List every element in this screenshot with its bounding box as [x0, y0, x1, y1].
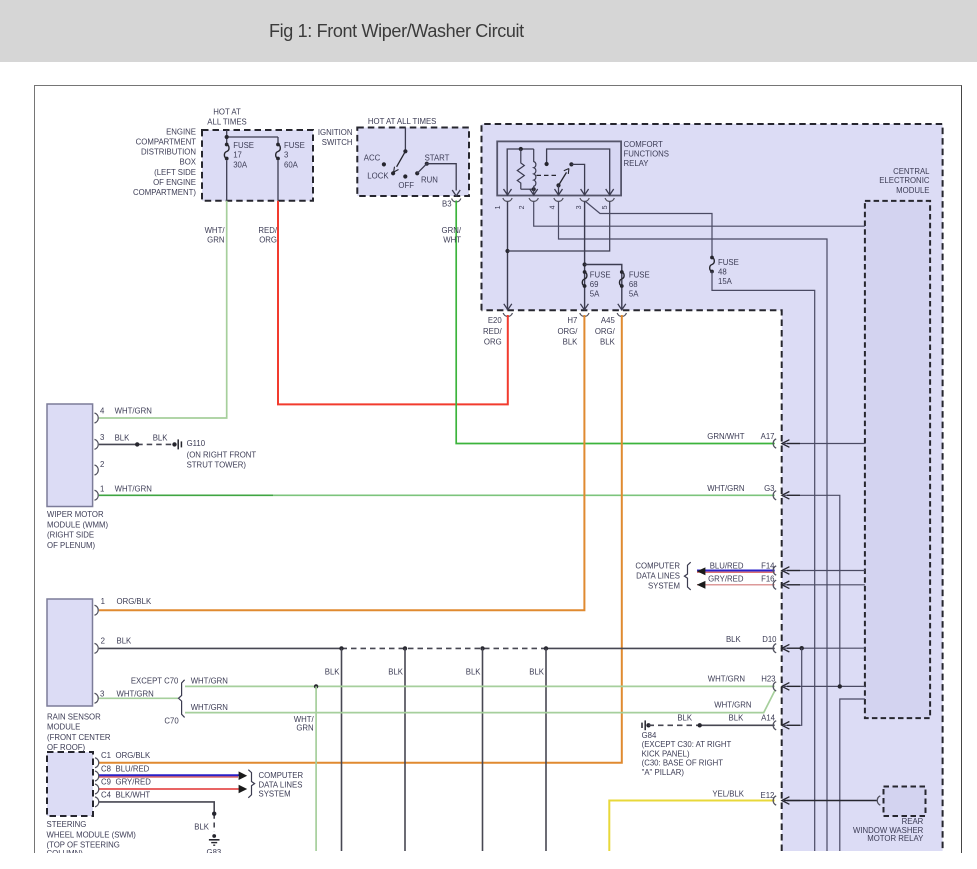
label GRN/WHT below B3	[442, 226, 462, 245]
svg-text:1: 1	[100, 484, 104, 493]
label E20 RED/ORG	[483, 316, 502, 347]
svg-text:A45: A45	[601, 316, 616, 325]
label H7 ORG/BLK	[557, 316, 578, 347]
wire WHT/GRN C70 branch	[185, 690, 775, 713]
central electronic module inner dashed box	[865, 201, 930, 718]
wire WHT/GRN wiper pin1 segment	[99, 494, 273, 496]
connector G3	[773, 491, 800, 500]
label rear window washer motor relay	[853, 817, 924, 843]
wire relay contact to pin3	[571, 164, 584, 195]
svg-text:4: 4	[100, 407, 105, 416]
svg-text:DATA LINES: DATA LINES	[636, 572, 680, 581]
svg-text:WHT/GRN: WHT/GRN	[115, 407, 152, 416]
connector A14	[773, 721, 800, 730]
svg-text:WHT/: WHT/	[205, 226, 226, 235]
wire BLK G84 to A14	[649, 724, 775, 726]
svg-text:E12: E12	[761, 791, 775, 800]
svg-text:GRN: GRN	[296, 723, 313, 732]
node OFF	[403, 174, 407, 178]
svg-text:ELECTRONIC: ELECTRONIC	[879, 176, 930, 185]
svg-text:BOX: BOX	[180, 158, 197, 167]
connector B3 cup	[452, 199, 461, 202]
svg-text:D10: D10	[762, 635, 777, 644]
wire G3 to H23 column	[784, 495, 840, 686]
svg-text:ORG: ORG	[484, 338, 502, 347]
svg-text:BLK: BLK	[388, 668, 404, 677]
svg-text:OF ENGINE: OF ENGINE	[153, 178, 196, 187]
wire relay pin3 branch to fuse48	[586, 202, 713, 257]
connector A45 exit	[617, 304, 626, 317]
connector rain pin3	[95, 693, 99, 703]
wire relay pin2 to inner module	[534, 202, 865, 227]
svg-text:ACC: ACC	[364, 154, 381, 163]
svg-text:BLK: BLK	[194, 823, 210, 832]
label A45 ORG/BLK	[595, 316, 616, 347]
label GRY/RED F16	[708, 574, 774, 583]
node wiper pin3 splice	[135, 442, 139, 446]
svg-text:OF PLENUM): OF PLENUM)	[47, 541, 95, 550]
svg-text:WHT/GRN: WHT/GRN	[707, 484, 744, 493]
node pin1 pin5 tie	[505, 249, 509, 253]
wire GRN/WHT B3 to A17	[456, 201, 775, 444]
node G84 splice	[646, 723, 650, 727]
svg-text:(FRONT CENTER: (FRONT CENTER	[47, 733, 111, 742]
svg-text:BLK: BLK	[466, 668, 482, 677]
steering wheel module box	[47, 752, 93, 816]
svg-text:G3: G3	[764, 484, 774, 493]
label BLK D10	[726, 635, 777, 644]
wire WHT/GRN fuse17 to wiper pin4	[99, 201, 227, 418]
svg-text:EXCEPT C70: EXCEPT C70	[131, 677, 179, 686]
brace C70 split	[179, 680, 185, 718]
wire BLU/RED computer data to F14	[697, 571, 775, 573]
ground G84	[642, 720, 645, 730]
svg-text:B3: B3	[442, 200, 452, 209]
node G110 splice	[172, 442, 176, 446]
svg-text:REAR: REAR	[902, 817, 924, 826]
wire BLK rain pin2 to D10	[99, 647, 775, 649]
svg-text:GRY/RED: GRY/RED	[116, 778, 152, 787]
svg-text:FUSE: FUSE	[590, 271, 611, 280]
label G84 block	[642, 731, 732, 777]
wire E12 to washer relay	[784, 800, 877, 802]
node C70 branch splice	[314, 684, 318, 688]
svg-text:BLK: BLK	[325, 668, 341, 677]
svg-text:1: 1	[495, 205, 502, 209]
label WHT/GRN below fuse17	[205, 226, 226, 245]
node BLK drop 2	[403, 646, 407, 650]
connector wiper pin3	[95, 439, 99, 449]
wire RED/ORG fuse3 to E20	[278, 201, 508, 405]
fuse 68 5A	[619, 270, 624, 288]
label BLK A14	[729, 713, 776, 722]
node LOCK	[391, 171, 395, 175]
ground G110	[178, 439, 181, 449]
wire WHT/GRN splice to G3	[273, 494, 775, 496]
node C4 ground splice	[212, 812, 216, 816]
node fuse top junction	[225, 135, 229, 139]
svg-text:BLU/RED: BLU/RED	[116, 764, 150, 773]
label engine compartment distribution box	[133, 127, 197, 197]
label GRN/WHT A17	[707, 432, 774, 441]
svg-text:5A: 5A	[629, 290, 639, 299]
wire relay pin3 down to H7	[584, 202, 586, 311]
wire H23 to inner module	[784, 685, 865, 687]
svg-text:2: 2	[101, 637, 105, 646]
wire ignition feed	[404, 128, 406, 152]
svg-text:ENGINE: ENGINE	[166, 127, 196, 136]
wire relay pin1 down to E20	[507, 202, 509, 311]
wire BLK drop 4	[545, 648, 547, 851]
wire A14 riser to D10	[784, 648, 802, 725]
svg-text:ORG/: ORG/	[595, 327, 616, 336]
wire relay pin1 riser	[507, 149, 534, 196]
connector E12	[773, 796, 800, 805]
connector A17	[773, 439, 800, 448]
wire YEL/BLK to E12	[609, 801, 774, 852]
wire resistor bottom link	[521, 188, 534, 190]
arrow F14 data line	[697, 567, 706, 575]
wire D10 to inner module	[784, 647, 865, 649]
wire tie to fuse68	[585, 265, 622, 311]
svg-text:ORG/: ORG/	[557, 327, 578, 336]
wiper motor module box	[47, 404, 93, 507]
svg-text:68: 68	[629, 280, 638, 289]
label WHT/GRN G3	[707, 484, 774, 493]
svg-text:A14: A14	[761, 713, 776, 722]
arrow C8 data line	[239, 771, 248, 780]
wire relay pin4 to inner column	[559, 202, 828, 852]
svg-text:60A: 60A	[284, 160, 299, 169]
wire relay actuator dashed link	[537, 174, 557, 176]
svg-text:SYSTEM: SYSTEM	[648, 582, 680, 591]
wire WHT/GRN rain pin3 to brace	[99, 697, 178, 699]
label rain sensor module	[47, 713, 111, 753]
label YEL/BLK E12	[712, 790, 774, 801]
label steering wheel module	[47, 820, 137, 858]
svg-text:E20: E20	[488, 316, 503, 325]
node fuse69 fuse68 tie	[583, 262, 587, 266]
svg-text:ORG/BLK: ORG/BLK	[117, 597, 152, 606]
svg-text:START: START	[425, 154, 450, 163]
label WHT/GRN H23	[708, 675, 776, 684]
wire BLK wiper pin3 to G110	[99, 443, 175, 445]
svg-text:OFF: OFF	[398, 181, 414, 190]
comfort functions relay box U1	[497, 141, 621, 195]
connector F14	[773, 566, 800, 575]
node relay NO contact	[569, 162, 573, 166]
svg-text:3: 3	[100, 433, 104, 442]
svg-text:A17: A17	[761, 432, 775, 441]
svg-text:(EXCEPT C30: AT RIGHT: (EXCEPT C30: AT RIGHT	[642, 740, 732, 749]
svg-text:C9: C9	[101, 778, 111, 787]
node ACC	[382, 162, 386, 166]
node relay coil top	[519, 147, 523, 151]
svg-text:MOTOR RELAY: MOTOR RELAY	[867, 834, 924, 843]
svg-text:STEERING: STEERING	[47, 820, 87, 829]
svg-text:F14: F14	[761, 561, 775, 570]
svg-text:BLK: BLK	[726, 635, 742, 644]
connector rain pin2	[95, 643, 99, 653]
connector B3 exit arrow	[452, 190, 460, 196]
connector relay pin5	[605, 189, 614, 201]
wire relay pin5 to pin1 tie	[508, 202, 610, 252]
svg-text:YEL/BLK: YEL/BLK	[712, 790, 744, 799]
svg-text:BLK: BLK	[563, 338, 579, 347]
label computer data lines system left	[259, 771, 304, 799]
svg-text:RUN: RUN	[421, 175, 438, 184]
label G110	[187, 439, 257, 470]
svg-text:RAIN SENSOR: RAIN SENSOR	[47, 713, 101, 722]
switch arm relay	[559, 169, 569, 186]
svg-text:G83: G83	[207, 848, 222, 853]
label computer data lines system right	[635, 561, 680, 590]
connector steering C4	[95, 797, 99, 807]
wire relay pivot to pin4	[558, 185, 560, 195]
wire relay pin5 riser	[547, 149, 610, 196]
inductor relay coil	[534, 149, 536, 196]
svg-text:HOT AT ALL TIMES: HOT AT ALL TIMES	[368, 117, 436, 126]
svg-text:BLK: BLK	[153, 434, 169, 443]
svg-text:(LEFT SIDE: (LEFT SIDE	[154, 168, 196, 177]
wire fuse17 to box bottom	[226, 161, 228, 201]
svg-text:GRY/RED: GRY/RED	[708, 574, 744, 583]
svg-text:ORG: ORG	[259, 236, 277, 245]
wire GRY/RED steering C9	[99, 788, 240, 790]
svg-text:"A" PILLAR): "A" PILLAR)	[642, 768, 685, 777]
svg-text:5A: 5A	[590, 290, 600, 299]
svg-text:3: 3	[100, 689, 104, 698]
svg-text:SYSTEM: SYSTEM	[259, 790, 291, 799]
connector steering C9	[95, 784, 99, 794]
wire ORG/BLK A45 to steering C1	[99, 315, 622, 763]
node H23 G3 tie	[838, 684, 842, 688]
svg-text:C70: C70	[164, 717, 179, 726]
node BLK drop 1	[339, 646, 343, 650]
connector steering C1	[95, 758, 99, 768]
connector wiper pin4	[95, 413, 99, 423]
svg-text:GRN: GRN	[207, 236, 224, 245]
node ignition feed	[403, 149, 407, 153]
svg-text:RELAY: RELAY	[624, 159, 650, 168]
svg-text:RED/: RED/	[258, 226, 277, 235]
svg-text:3: 3	[284, 151, 288, 160]
rain sensor module box	[47, 599, 93, 706]
connector F16	[773, 580, 800, 589]
rear window washer motor relay box	[884, 787, 926, 817]
wire RUN to START to B3	[417, 164, 456, 191]
node relay arm pivot	[556, 183, 560, 187]
svg-text:(C30: BASE OF RIGHT: (C30: BASE OF RIGHT	[642, 759, 724, 768]
switch arm ignition	[394, 151, 406, 172]
connector rain pin1	[95, 605, 99, 615]
connector relay pin2	[529, 189, 538, 201]
wire F16 to inner module	[784, 584, 865, 586]
label central electronic module	[879, 167, 930, 195]
label fuse 69	[590, 271, 611, 299]
svg-text:5: 5	[602, 205, 609, 209]
svg-text:WHEEL MODULE (SWM): WHEEL MODULE (SWM)	[47, 830, 137, 839]
svg-text:WHT/GRN: WHT/GRN	[714, 701, 751, 710]
svg-text:H23: H23	[761, 675, 775, 684]
svg-text:WHT/GRN: WHT/GRN	[191, 677, 228, 686]
svg-text:(ON RIGHT FRONT: (ON RIGHT FRONT	[187, 451, 257, 460]
wire BLK drop 2	[404, 648, 406, 851]
label comfort functions relay	[624, 140, 669, 168]
svg-text:KICK PANEL): KICK PANEL)	[642, 749, 690, 758]
connector washer relay cup	[877, 796, 880, 805]
svg-text:F16: F16	[761, 574, 774, 583]
wire BLK drop 3	[482, 648, 484, 851]
brace computer data lines right	[684, 562, 690, 590]
svg-text:BLU/RED: BLU/RED	[710, 561, 744, 570]
svg-text:BLK: BLK	[529, 668, 545, 677]
node BLK drop 3	[480, 646, 484, 650]
connector relay pin3	[580, 189, 589, 201]
svg-text:BLK: BLK	[729, 713, 745, 722]
svg-text:LOCK: LOCK	[367, 171, 389, 180]
label WHT/GRN splice drop	[294, 715, 315, 732]
svg-text:G110: G110	[187, 439, 206, 448]
svg-text:69: 69	[590, 280, 599, 289]
fuse 48 15A	[710, 256, 715, 274]
svg-text:WHT: WHT	[443, 236, 461, 245]
svg-text:MODULE: MODULE	[47, 723, 80, 732]
svg-text:BLK/WHT: BLK/WHT	[116, 790, 151, 799]
svg-text:COMPUTER: COMPUTER	[259, 771, 304, 780]
label hot at all times left	[207, 108, 246, 127]
wire BLK drop 1	[341, 648, 343, 851]
svg-text:CENTRAL: CENTRAL	[893, 167, 930, 176]
connector H23	[773, 682, 800, 691]
svg-text:HOT AT: HOT AT	[213, 108, 241, 117]
svg-text:IGNITION: IGNITION	[318, 128, 353, 137]
arrow C9 data line	[239, 785, 248, 793]
svg-text:30A: 30A	[233, 160, 248, 169]
svg-text:COMPUTER: COMPUTER	[635, 561, 680, 570]
svg-text:WIPER MOTOR: WIPER MOTOR	[47, 510, 104, 519]
svg-text:BLK: BLK	[115, 434, 131, 443]
fuse 3 60A	[276, 143, 281, 161]
wire WHT/GRN splice drop	[315, 686, 317, 851]
connector H7 exit	[580, 304, 589, 317]
svg-text:GRN/WHT: GRN/WHT	[707, 432, 744, 441]
node A14 splice	[698, 723, 702, 727]
node RUN	[415, 171, 419, 175]
connector relay pin1	[503, 189, 512, 201]
connector D10	[773, 644, 800, 653]
svg-text:C1: C1	[101, 751, 111, 760]
label wiper motor module	[47, 510, 108, 550]
svg-text:RED/: RED/	[483, 327, 502, 336]
svg-text:BLK: BLK	[117, 637, 133, 646]
svg-text:STRUT TOWER): STRUT TOWER)	[187, 461, 247, 470]
label BLU/RED F14	[710, 561, 775, 570]
svg-text:(RIGHT SIDE: (RIGHT SIDE	[47, 531, 94, 540]
svg-text:48: 48	[718, 267, 727, 276]
fuse 69 5A	[582, 270, 587, 288]
svg-text:3: 3	[576, 205, 583, 209]
svg-text:G84: G84	[642, 731, 657, 740]
svg-text:GRN/: GRN/	[442, 226, 462, 235]
svg-text:WHT/GRN: WHT/GRN	[115, 484, 152, 493]
svg-text:17: 17	[233, 151, 242, 160]
wire WHT/GRN except C70 branch to H23	[185, 685, 775, 687]
wire inner module bottom tap	[840, 699, 865, 851]
wire ORG/BLK H7 to rain pin1	[99, 315, 584, 610]
svg-text:MODULE: MODULE	[896, 186, 929, 195]
svg-text:DISTRIBUTION: DISTRIBUTION	[141, 148, 196, 157]
connector E20 exit	[503, 304, 512, 317]
ground G83	[209, 834, 220, 845]
svg-text:BLK: BLK	[600, 338, 616, 347]
wire fuse48 to right column	[712, 272, 815, 852]
svg-text:1: 1	[101, 597, 105, 606]
wire A17 to inner module	[784, 443, 865, 445]
wire F14 to inner module	[784, 570, 865, 572]
central electronic module outer region (lavender L-shape)	[482, 124, 943, 851]
svg-text:MODULE (WMM): MODULE (WMM)	[47, 520, 108, 529]
svg-text:WHT/GRN: WHT/GRN	[117, 689, 154, 698]
svg-text:FUNCTIONS: FUNCTIONS	[624, 150, 669, 159]
svg-text:FUSE: FUSE	[284, 141, 305, 150]
label fuse 3	[284, 141, 305, 169]
svg-text:C4: C4	[101, 790, 112, 799]
svg-text:FUSE: FUSE	[718, 258, 739, 267]
svg-text:2: 2	[519, 205, 526, 209]
svg-text:C8: C8	[101, 764, 111, 773]
svg-text:2: 2	[100, 460, 104, 469]
fuse 17 30A	[224, 143, 229, 161]
svg-text:COMFORT: COMFORT	[624, 140, 664, 149]
resistor relay internal	[517, 149, 524, 189]
svg-text:COMPARTMENT: COMPARTMENT	[136, 138, 197, 147]
ignition switch box	[357, 128, 469, 197]
svg-text:ALL TIMES: ALL TIMES	[207, 117, 246, 126]
svg-text:4: 4	[550, 205, 557, 209]
svg-text:WHT/GRN: WHT/GRN	[191, 703, 228, 712]
svg-text:SWITCH: SWITCH	[322, 138, 353, 147]
label ignition switch	[318, 128, 353, 147]
connector wiper pin2	[95, 465, 99, 475]
svg-text:FUSE: FUSE	[629, 271, 650, 280]
svg-text:ORG/BLK: ORG/BLK	[116, 751, 151, 760]
svg-text:OF ROOF): OF ROOF)	[47, 743, 86, 752]
engine compartment distribution box	[202, 130, 313, 201]
svg-text:COLUMN): COLUMN)	[47, 849, 84, 853]
connector relay pin4	[554, 189, 563, 201]
svg-text:H7: H7	[567, 316, 577, 325]
wire BLU/RED steering C8	[99, 775, 240, 777]
svg-text:BLK: BLK	[677, 713, 693, 722]
node BLK drop 4	[544, 646, 548, 650]
wire BLK/WHT steering C4 to G83	[99, 802, 214, 832]
svg-text:WHT/GRN: WHT/GRN	[708, 675, 745, 684]
node D10 A14 tie	[800, 646, 804, 650]
node START	[425, 162, 429, 166]
arrow F16 data line	[697, 581, 706, 589]
brace steering data lines	[248, 770, 254, 798]
node relay coil bottom	[532, 187, 536, 191]
label fuse 48	[718, 258, 739, 286]
node relay NC contact	[545, 162, 549, 166]
connector steering C8	[95, 771, 99, 781]
wire fuse feed stub F17/F3 top link	[227, 130, 278, 144]
svg-text:DATA LINES: DATA LINES	[259, 781, 303, 790]
label RED/ORG below fuse3	[258, 226, 277, 245]
label fuse 17	[233, 141, 254, 169]
label fuse 68	[629, 271, 650, 299]
